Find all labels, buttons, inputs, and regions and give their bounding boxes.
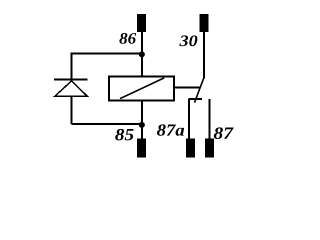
diode D1 triangle (55, 81, 87, 96)
wire 87a terminal up (188, 99, 190, 139)
terminal 30 (199, 14, 208, 32)
wire 87 terminal up (208, 99, 210, 139)
label 87 (214, 127, 234, 139)
label 30 (179, 35, 197, 46)
node junction bottom (85) (139, 122, 145, 128)
diode D1 cathode bar (54, 79, 88, 81)
wire coil bottom to 85 terminal (141, 100, 143, 139)
terminal 85 (137, 139, 146, 158)
wire bottom rail (72, 123, 142, 125)
relay coil actuator diagonal (120, 78, 164, 99)
wire 30 terminal down (203, 32, 205, 78)
terminal 87 (205, 139, 214, 158)
label 86 (119, 33, 136, 44)
wire diode anode to bottom rail (71, 96, 73, 124)
relay coil K1 box (109, 76, 174, 100)
terminal 87a (186, 139, 195, 158)
node junction top (86) (139, 51, 145, 57)
switch lever from 30 (195, 78, 204, 102)
terminal 86 (137, 14, 146, 32)
label 85 (115, 129, 133, 141)
wire left branch down to diode cathode (71, 52, 73, 81)
wire top rail to diode (72, 52, 142, 54)
wire coil to switch pivot (174, 86, 200, 88)
wire 86 terminal to coil top (141, 32, 143, 77)
label 87a (157, 124, 184, 135)
wire contact 87a stub (189, 98, 202, 100)
